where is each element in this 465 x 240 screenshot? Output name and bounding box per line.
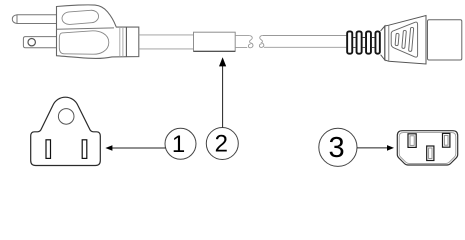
svg-text:1: 1 [172,131,185,158]
svg-text:3: 3 [329,132,345,164]
svg-text:2: 2 [215,131,228,158]
